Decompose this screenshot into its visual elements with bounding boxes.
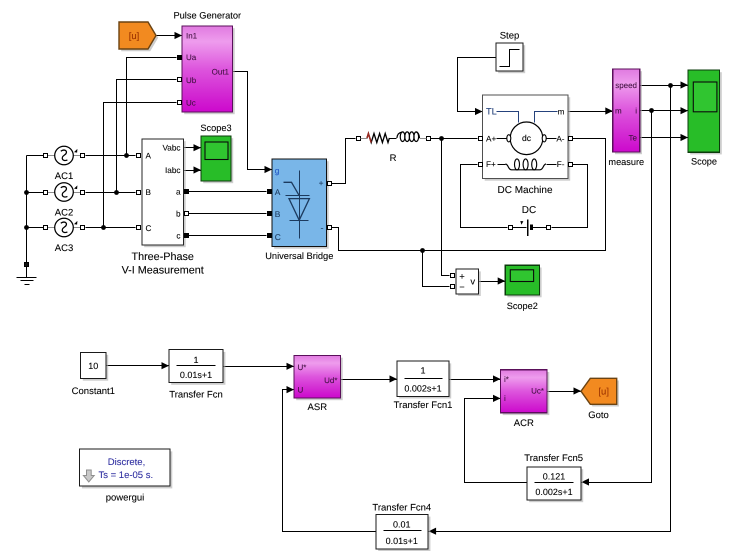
svg-text:Uc: Uc <box>186 98 196 107</box>
svg-text:DC Machine: DC Machine <box>497 185 552 196</box>
svg-text:powergui: powergui <box>106 493 145 504</box>
svg-text:Three-Phase: Three-Phase <box>131 251 193 263</box>
svg-text:10: 10 <box>88 361 98 371</box>
svg-text:measure: measure <box>608 157 644 167</box>
svg-text:speed: speed <box>615 81 637 90</box>
svg-text:F-: F- <box>557 160 565 169</box>
svg-text:Transfer Fcn: Transfer Fcn <box>169 389 223 400</box>
svg-text:C: C <box>146 224 152 233</box>
svg-text:U*: U* <box>298 363 307 372</box>
svg-text:In1: In1 <box>186 32 198 41</box>
svg-text:0.002s+1: 0.002s+1 <box>404 383 441 393</box>
svg-text:1: 1 <box>420 365 425 375</box>
svg-text:Goto: Goto <box>588 410 609 421</box>
svg-text:dc: dc <box>522 133 532 143</box>
svg-text:U: U <box>298 385 304 394</box>
svg-text:A: A <box>275 187 281 197</box>
svg-text:AC1: AC1 <box>55 171 73 182</box>
svg-text:ASR: ASR <box>308 402 328 413</box>
svg-text:Te: Te <box>629 133 638 142</box>
svg-text:Ub: Ub <box>186 76 197 85</box>
svg-text:−: − <box>459 282 464 292</box>
svg-text:m: m <box>615 107 622 116</box>
svg-text:Scope3: Scope3 <box>200 123 231 133</box>
svg-text:Universal Bridge: Universal Bridge <box>265 251 333 261</box>
svg-text:Ud*: Ud* <box>324 376 337 385</box>
svg-text:0.121: 0.121 <box>543 471 566 481</box>
svg-text:m: m <box>558 108 565 117</box>
svg-text:0.01s+1: 0.01s+1 <box>180 370 212 380</box>
svg-text:Pulse Generator: Pulse Generator <box>173 11 241 21</box>
svg-text:F+: F+ <box>486 160 496 169</box>
svg-text:Step: Step <box>500 31 520 42</box>
svg-text:i: i <box>635 107 637 116</box>
svg-text:b: b <box>176 209 181 218</box>
svg-text:c: c <box>176 231 180 240</box>
svg-text:Transfer Fcn1: Transfer Fcn1 <box>394 400 453 411</box>
svg-text:v: v <box>470 277 475 288</box>
svg-text:C: C <box>275 232 281 242</box>
svg-text:A+: A+ <box>486 134 496 143</box>
svg-text:-: - <box>321 223 324 233</box>
svg-text:i: i <box>504 394 506 403</box>
svg-text:B: B <box>275 209 281 219</box>
svg-text:Discrete,: Discrete, <box>108 457 145 468</box>
svg-text:Uc*: Uc* <box>531 386 544 395</box>
svg-text:Iabc: Iabc <box>165 166 180 175</box>
svg-text:ACR: ACR <box>514 418 534 429</box>
svg-text:Scope: Scope <box>691 156 717 166</box>
svg-text:[u]: [u] <box>598 387 609 398</box>
svg-text:Transfer Fcn5: Transfer Fcn5 <box>524 453 583 464</box>
svg-text:Out1: Out1 <box>212 67 230 76</box>
svg-text:i*: i* <box>504 375 509 384</box>
svg-text:R: R <box>390 153 397 164</box>
svg-text:+: + <box>459 272 465 283</box>
svg-text:1: 1 <box>193 355 198 365</box>
svg-text:TL: TL <box>486 107 497 117</box>
svg-text:g: g <box>275 166 280 176</box>
svg-text:B: B <box>146 188 152 197</box>
svg-text:0.01s+1: 0.01s+1 <box>386 536 418 546</box>
svg-text:DC: DC <box>522 205 536 216</box>
svg-text:A: A <box>146 152 152 161</box>
svg-text:+: + <box>319 178 324 188</box>
svg-text:Ts = 1e-05 s.: Ts = 1e-05 s. <box>98 470 153 481</box>
svg-text:a: a <box>176 187 181 196</box>
svg-text:0.002s+1: 0.002s+1 <box>535 487 572 497</box>
svg-text:Transfer Fcn4: Transfer Fcn4 <box>372 503 431 514</box>
svg-text:0.01: 0.01 <box>393 519 411 529</box>
svg-text:[u]: [u] <box>129 31 140 42</box>
svg-text:Vabc: Vabc <box>162 144 180 153</box>
svg-text:AC2: AC2 <box>55 208 73 219</box>
svg-text:Scope2: Scope2 <box>507 301 538 311</box>
svg-text:V-I Measurement: V-I Measurement <box>122 264 204 276</box>
svg-text:Ua: Ua <box>186 53 197 62</box>
svg-text:AC3: AC3 <box>55 243 73 254</box>
svg-text:Constant1: Constant1 <box>72 386 115 397</box>
svg-text:A-: A- <box>556 134 564 143</box>
